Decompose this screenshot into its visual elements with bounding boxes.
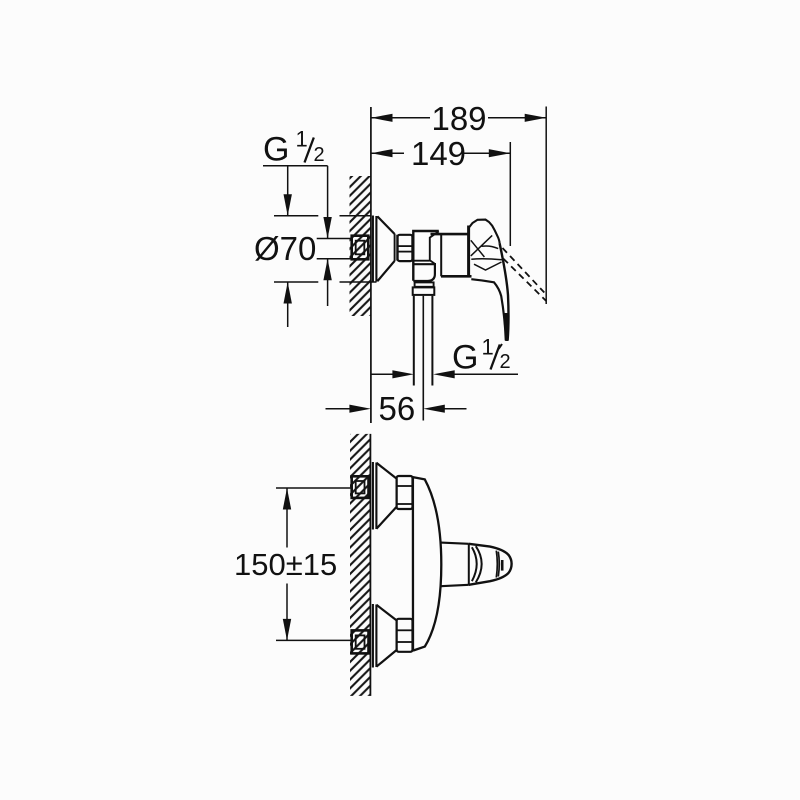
svg-text:G: G [452, 338, 478, 376]
G 1/2 lower extension line (nipple bottom) [317, 258, 352, 260]
lever alternate position (dashed) upper [503, 248, 545, 293]
handle hub internal seam [471, 259, 502, 260]
upper hex nut (plan view) [397, 476, 413, 509]
Ø70 lower dimension line with arrowhead [287, 282, 289, 327]
outlet pipe centreline [422, 296, 424, 421]
outlet elbow (side view) [413, 263, 435, 281]
valve body block (side view) [413, 231, 439, 281]
outlet collar washer [415, 282, 434, 286]
dimension 150±15 upper arrowhead [283, 488, 291, 510]
svg-text:Ø70: Ø70 [254, 230, 316, 267]
dimension 149 extension line (right) [509, 142, 511, 246]
outlet collar nut [413, 287, 435, 295]
valve neck (plan view) [441, 543, 469, 587]
dimension 56 line left part with right arrowhead [326, 408, 352, 410]
escutcheon (side view) [372, 216, 374, 283]
handle hub front curve detail [482, 246, 499, 249]
handle hub internal diagonal 1 [471, 235, 492, 256]
lever tick below tip [499, 344, 502, 349]
lower escutcheon (plan view) [372, 604, 374, 668]
dimension Ø70 lower extension line [274, 281, 318, 283]
valve dome (plan view) [469, 544, 512, 585]
handle hub cap (side view) [469, 220, 500, 244]
G 1/2 leader underline [263, 165, 328, 167]
supply union square fitting (side view) [352, 236, 369, 260]
svg-text:56: 56 [379, 390, 416, 427]
dimension 149 right arrowhead [489, 149, 511, 157]
cartridge flange (side view) [467, 226, 470, 277]
dimension 150±15 lower arrowhead [283, 619, 291, 641]
dimension 149 left arrowhead [371, 149, 393, 157]
svg-text:2: 2 [314, 144, 325, 166]
dimension 150±15 lower extension line [276, 639, 352, 641]
svg-text:149: 149 [411, 135, 466, 172]
svg-text:2: 2 [500, 351, 511, 373]
dimension 189 extension line (right) [545, 107, 547, 305]
wall surface line / extension line (side view) [370, 107, 372, 423]
dimension 189 line [371, 117, 430, 119]
G 1/2 upper dimension line with arrowhead [327, 166, 329, 239]
lever inner edge (side view) [471, 279, 506, 340]
G 1/2 upper extension line (nipple top) [317, 238, 352, 240]
lever tip solid [503, 313, 509, 341]
dimension 189 right arrowhead [525, 114, 547, 122]
upper escutcheon (plan view) [372, 462, 374, 530]
mixer barrel (side view) [431, 233, 469, 236]
handle hub internal diagonal 2 [471, 240, 485, 257]
valve dome tick [501, 560, 504, 571]
svg-text:1: 1 [482, 335, 494, 360]
valve dome crescent [472, 546, 482, 582]
dimension 149 line [371, 152, 404, 154]
dimension 56 right part with left arrowhead [443, 408, 467, 410]
G 1/2 outlet left segment with right arrowhead [371, 373, 394, 375]
lower supply union square (plan view) [352, 630, 369, 653]
svg-text:150±15: 150±15 [234, 547, 337, 582]
dimension 150±15 upper extension line [276, 487, 352, 489]
wall surface line (plan view) [369, 434, 371, 696]
wall (plan view, hatched) [350, 434, 370, 696]
wall (side view, hatched) [350, 176, 371, 316]
valve dome cap seam [496, 551, 499, 578]
svg-text:G: G [263, 130, 289, 168]
handle hub check detail [474, 262, 502, 270]
svg-text:189: 189 [431, 100, 486, 137]
dimension 189 left arrowhead [371, 114, 393, 122]
svg-text:1: 1 [296, 126, 308, 151]
upper supply union square (plan view) [352, 476, 369, 498]
G 1/2 outlet leader line with left arrowhead [454, 373, 519, 375]
shower outlet pipe (side view) [413, 296, 415, 386]
valve flange line (plan view) [468, 544, 470, 585]
Ø70 upper dimension line with arrowhead [287, 166, 289, 216]
mixer body (plan view) [413, 477, 441, 650]
lever outer edge (side view) [500, 243, 509, 340]
lower hex nut (plan view) [397, 619, 413, 652]
hex nut (side view) [398, 235, 413, 261]
dimension 150±15 line [286, 488, 288, 548]
lever alternate position (dashed) lower [503, 259, 546, 301]
G 1/2 lower dimension line with arrowhead [327, 259, 329, 306]
dimension Ø70 upper extension line [274, 215, 318, 217]
